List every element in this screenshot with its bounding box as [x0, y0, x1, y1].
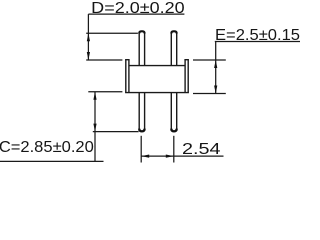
pin 2 lower rounded tip [171, 129, 176, 132]
housing body right wall top cap [184, 59, 189, 61]
dimension C extension line at pin tip level [93, 131, 139, 133]
housing body left wall outer line [125, 60, 127, 93]
dimension E leader vertical line [215, 42, 217, 94]
pitch extension line below pin 2 [173, 136, 175, 163]
dimension E extension line at body bottom level [193, 93, 226, 95]
dimension D upper arrowhead [87, 33, 90, 41]
dimension D lower arrowhead [87, 52, 90, 60]
dimension E upper arrowhead [214, 60, 217, 68]
pitch left arrowhead [141, 155, 149, 158]
pitch right arrowhead [166, 155, 174, 158]
pin 2 upper section [171, 31, 176, 65]
dimension D extension line at wall top level [86, 59, 122, 61]
housing body right wall outer line [187, 60, 189, 93]
dimension C extension line at body bottom level [88, 91, 122, 93]
pin 1 lower rounded tip [139, 129, 144, 132]
dimension E underline [215, 41, 300, 43]
pin 2 lower section [171, 93, 176, 132]
dimension C leader vertical line [94, 92, 96, 162]
pin 2 upper tip dome [171, 31, 176, 33]
housing body left wall top cap [125, 59, 130, 61]
dimension E extension line at wall top level [193, 59, 226, 61]
pin 1 upper section [139, 31, 144, 65]
pitch extension line below pin 1 [140, 136, 142, 163]
housing body bottom line [125, 92, 189, 94]
dimension D leader vertical line [87, 14, 89, 60]
dimension C upper arrowhead [93, 92, 96, 100]
dimension E lower arrowhead [214, 86, 217, 94]
pitch dimension line [141, 155, 223, 157]
housing body right wall inner line [184, 60, 186, 93]
housing body left wall inner line [128, 60, 130, 93]
svg-text:C=2.85±0.20: C=2.85±0.20 [0, 139, 94, 156]
housing body floor line [129, 65, 185, 67]
dimension D underline [88, 13, 184, 15]
pin 1 upper tip dome [139, 31, 144, 33]
dimension D extension line at pin top level [86, 32, 138, 34]
dimension C lower arrowhead [93, 124, 96, 132]
dimension C underline [0, 160, 104, 162]
pin 1 lower section [139, 93, 144, 132]
